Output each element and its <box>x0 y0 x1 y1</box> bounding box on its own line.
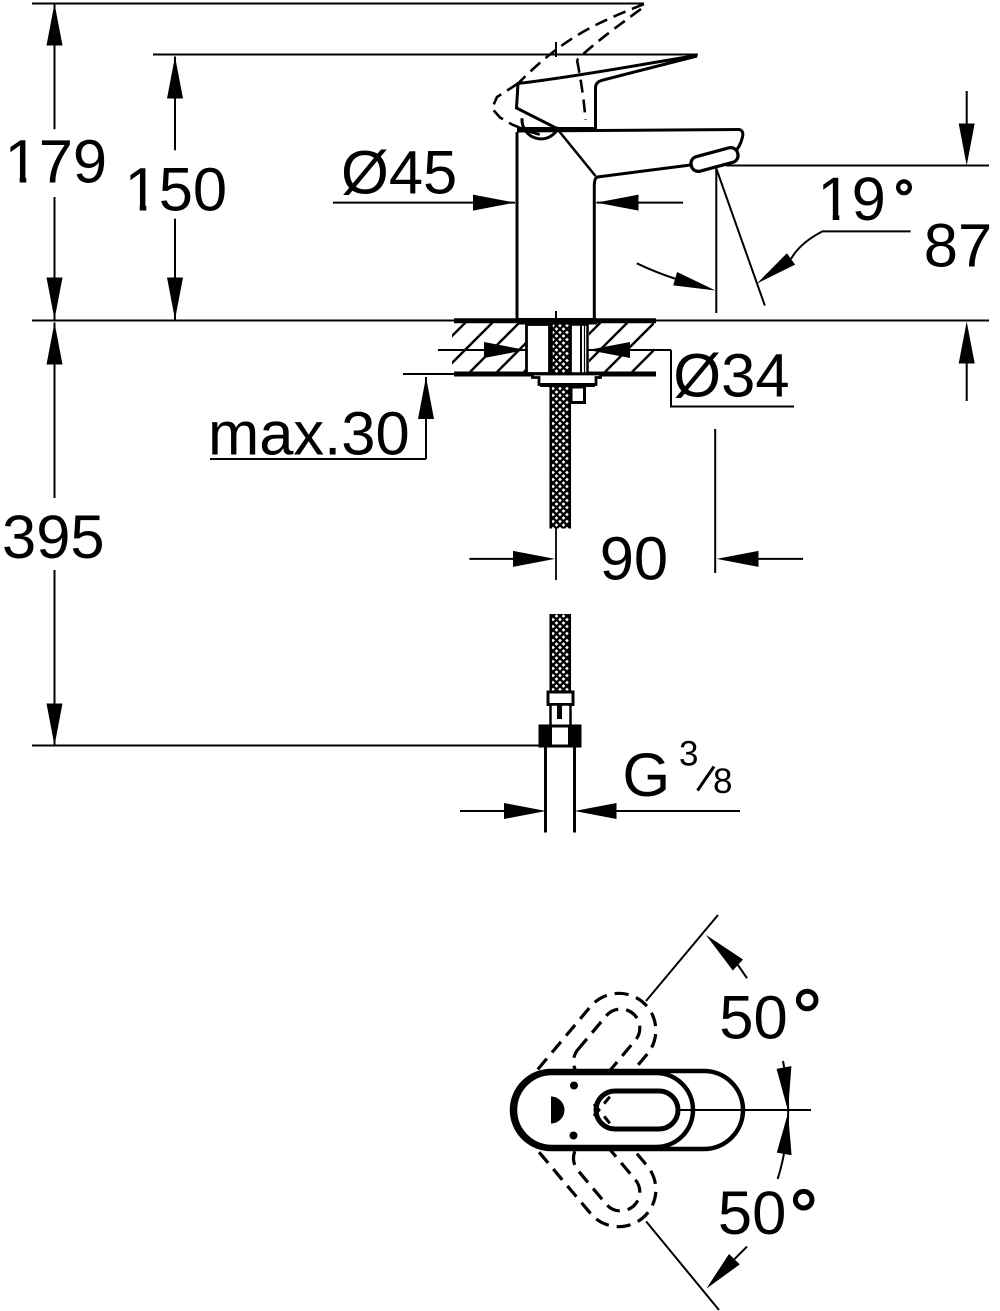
svg-text:90: 90 <box>600 525 668 594</box>
svg-text:19: 19 <box>817 165 885 234</box>
svg-text:3: 3 <box>679 735 698 774</box>
svg-text:8: 8 <box>713 762 732 801</box>
svg-text:50: 50 <box>719 983 787 1052</box>
svg-text:50: 50 <box>718 1179 786 1248</box>
svg-text:87: 87 <box>924 212 992 281</box>
svg-text:179: 179 <box>5 128 108 197</box>
svg-text:max.30: max.30 <box>208 400 410 469</box>
svg-text:Ø45: Ø45 <box>341 139 457 208</box>
svg-text:Ø34: Ø34 <box>673 342 789 411</box>
svg-text:G: G <box>622 741 670 810</box>
svg-text:395: 395 <box>2 503 105 572</box>
svg-text:150: 150 <box>125 156 228 225</box>
